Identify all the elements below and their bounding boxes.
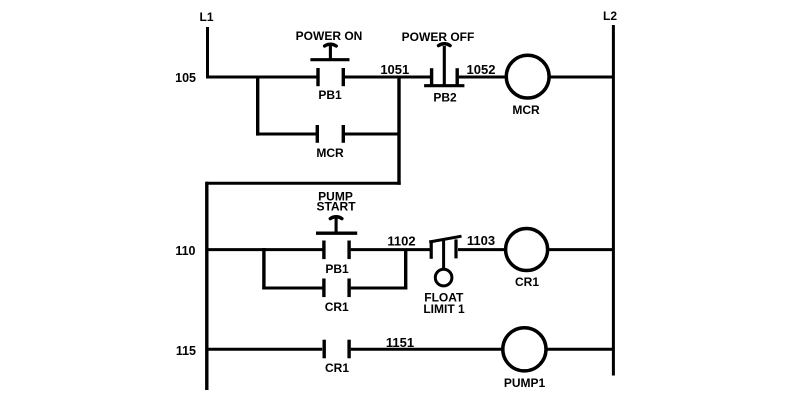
- svg-text:115: 115: [176, 344, 196, 358]
- label POWER OFF: [402, 30, 475, 44]
- contact CR1 rung115: [324, 340, 349, 359]
- svg-text:CR1: CR1: [515, 275, 539, 289]
- pushbutton PB1 actuator: [310, 44, 349, 60]
- svg-text:110: 110: [175, 244, 195, 258]
- wire L2 rail: [612, 25, 615, 376]
- node 115: [176, 344, 196, 358]
- wire rung115 rail to CR1: [206, 348, 322, 351]
- svg-text:MCR: MCR: [512, 103, 540, 117]
- node 1102: [387, 234, 415, 249]
- contact CR1 parallel: [324, 279, 349, 298]
- label CR1 coil: [515, 275, 539, 289]
- node 1151: [386, 335, 414, 350]
- node 110: [175, 244, 195, 258]
- node L2: [603, 9, 617, 23]
- wire sub-rail: [205, 182, 208, 390]
- coil MCR: [506, 55, 549, 98]
- svg-text:105: 105: [175, 71, 196, 85]
- svg-text:L1: L1: [199, 10, 213, 24]
- pushbutton PB1 contact: [318, 68, 343, 86]
- svg-text:1103: 1103: [467, 233, 495, 248]
- label MCR coil: [512, 103, 540, 117]
- svg-text:1051: 1051: [380, 62, 409, 77]
- wire CR1 coil to L2: [547, 248, 615, 251]
- label PB2: [433, 91, 457, 105]
- label PUMP START: [316, 189, 356, 213]
- svg-text:PUMP1: PUMP1: [504, 376, 546, 390]
- svg-text:1102: 1102: [387, 234, 415, 249]
- wire CR1 branch right: [351, 287, 408, 290]
- wire rung110 rail to PB1: [206, 248, 323, 251]
- svg-text:PB2: PB2: [433, 91, 457, 105]
- wire CR1 branch right vertical: [404, 251, 407, 290]
- svg-text:POWER OFF: POWER OFF: [402, 30, 475, 44]
- label CR1 contact: [325, 300, 349, 314]
- wire PB1 to float switch: [351, 248, 430, 251]
- switch FLOAT LIMIT 1: [429, 236, 461, 286]
- pushbutton PB2 actuator: [424, 44, 464, 86]
- svg-text:CR1: CR1: [325, 300, 349, 314]
- svg-text:LIMIT 1: LIMIT 1: [423, 302, 465, 316]
- label FLOAT LIMIT 1: [423, 291, 465, 317]
- label PB1 pump: [325, 262, 349, 276]
- wire MCR branch right: [345, 133, 401, 136]
- label PB1: [318, 88, 342, 102]
- svg-text:PB1: PB1: [325, 262, 349, 276]
- svg-text:POWER ON: POWER ON: [296, 29, 363, 43]
- wire rung105 L1 to PB1: [206, 76, 318, 79]
- wire MCR coil to L2: [549, 76, 615, 79]
- svg-text:PB1: PB1: [318, 88, 342, 102]
- wire CR1 branch left: [262, 287, 323, 290]
- node L1: [199, 10, 213, 24]
- node 1052: [467, 62, 496, 77]
- svg-text:CR1: CR1: [325, 361, 349, 375]
- label PUMP1: [504, 376, 546, 390]
- wire PUMP1 coil to L2: [547, 348, 615, 351]
- pushbutton PB1 pump actuator: [316, 217, 357, 233]
- wire PB1 to PB2: [345, 76, 430, 79]
- node 1103: [467, 233, 495, 248]
- wire branch left vertical: [256, 76, 259, 136]
- node 1051: [380, 62, 409, 77]
- wire CR1 to PUMP1 coil: [351, 348, 505, 351]
- wire CR1 branch left vertical: [262, 248, 265, 290]
- wire MCR branch left: [256, 133, 317, 136]
- svg-text:1052: 1052: [467, 62, 496, 77]
- label CR1 rung115: [325, 361, 349, 375]
- svg-text:START: START: [316, 200, 356, 214]
- wire L1 rail: [206, 27, 209, 79]
- pushbutton PB1 pump contact: [324, 241, 349, 260]
- svg-text:1151: 1151: [386, 335, 414, 350]
- svg-text:MCR: MCR: [316, 146, 344, 160]
- coil PUMP1: [503, 328, 546, 371]
- wire feed horizontal: [206, 182, 401, 185]
- coil CR1: [506, 229, 548, 271]
- contact MCR: [317, 125, 343, 143]
- label MCR contact: [316, 146, 344, 160]
- wire float to CR1 coil: [458, 248, 507, 251]
- wire PB2 to MCR coil: [459, 76, 508, 79]
- pushbutton PB2 contact: [432, 68, 458, 85]
- node 105: [175, 71, 196, 85]
- svg-text:L2: L2: [603, 9, 617, 23]
- label POWER ON: [296, 29, 363, 43]
- wire node 1051 vertical: [397, 77, 400, 185]
